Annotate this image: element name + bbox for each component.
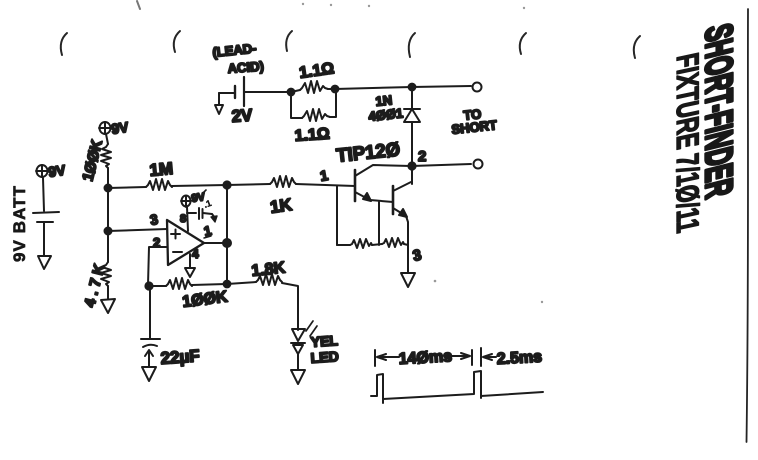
TIP120 internal Q1 emitter <box>355 192 370 200</box>
node (+ input junction) <box>105 228 112 235</box>
svg-text:1: 1 <box>319 167 330 184</box>
wire (1K input from node) <box>227 184 270 185</box>
svg-text:1K: 1K <box>269 195 294 217</box>
svg-text:3: 3 <box>149 211 160 228</box>
svg-text:4.7K: 4.7K <box>81 262 108 309</box>
svg-text:FIXTURE 7/1Ø/11: FIXTURE 7/1Ø/11 <box>670 50 705 236</box>
node (1M / 1K / op-amp vertical) <box>223 181 230 188</box>
wire (pin 2 to feedback node) <box>148 247 167 285</box>
ground (op-amp pin 4, small) <box>185 268 195 277</box>
svg-text:YEL: YEL <box>310 332 339 350</box>
wire (pin 8 stub) <box>187 207 188 231</box>
ground (bypass cap, small arrow) <box>212 214 215 218</box>
resistor R5 1.8K <box>227 282 256 284</box>
svg-text:LED: LED <box>310 348 339 366</box>
node (R1 / 1M junction) <box>105 185 112 192</box>
TIP120 internal Q1 base bar <box>354 170 357 201</box>
TIP120 internal Q2 emitter <box>393 208 406 216</box>
svg-text:TIP12Ø: TIP12Ø <box>335 139 401 167</box>
svg-text:3: 3 <box>411 247 423 265</box>
wire (Q1 emitter to internal resistor) <box>378 202 380 245</box>
terminal (TO SHORT +) <box>473 83 482 92</box>
timing waveform <box>371 374 383 403</box>
node (output) <box>223 239 231 247</box>
ground (LED) <box>291 370 305 384</box>
resistor R7 1.1 ohm (top) <box>291 90 300 92</box>
wire (top rail to diode junction) <box>335 87 412 89</box>
svg-text:14Øms: 14Øms <box>398 348 452 368</box>
TIP120 internal resistor Rb <box>372 244 382 245</box>
battery B1 9V <box>43 178 44 211</box>
paper right edge (decorative) <box>747 9 749 442</box>
svg-text:2: 2 <box>418 148 426 165</box>
LED D2 yellow <box>292 329 305 341</box>
svg-text:ACID): ACID) <box>227 59 264 76</box>
wire (mid rail: node to 1M) <box>108 187 146 188</box>
ground (B2, small arrow) <box>218 93 220 104</box>
svg-text:9V BATT: 9V BATT <box>10 185 29 262</box>
ground (TIP120 emitter) <box>401 273 415 287</box>
node (parallel left) <box>288 89 295 96</box>
ground (4.7K) <box>101 299 115 313</box>
resistor R4 100K (feedback) <box>166 278 192 289</box>
wire (base drop to internal resistors) <box>336 186 338 245</box>
timing dimension 2.5ms <box>480 348 482 366</box>
svg-text:1M: 1M <box>149 159 174 180</box>
timing dimension 140ms <box>374 350 376 366</box>
wire (+ input) <box>108 229 167 231</box>
svg-text:(LEAD-: (LEAD- <box>212 40 257 60</box>
svg-text:9V: 9V <box>110 119 130 137</box>
wire (collector vertical from node 2) <box>411 164 413 184</box>
capacitor C1 22uF <box>149 287 151 338</box>
terminal (TO SHORT -) <box>474 160 483 169</box>
ground (C1) <box>142 367 156 381</box>
node (diode junction) <box>409 84 416 91</box>
svg-text:.1: .1 <box>202 198 212 210</box>
TIP120 internal resistor Ra <box>337 244 350 246</box>
power +9V (op-amp pin 8) <box>181 196 191 208</box>
op-amp U1 <box>167 220 204 265</box>
wire (feedback row left) <box>149 285 166 287</box>
svg-text:8: 8 <box>180 213 186 225</box>
resistor R2 4.7K (vertical) <box>107 231 109 262</box>
wire (emitter down) <box>407 245 409 272</box>
wire (top rail battery to parallel pair) <box>244 91 291 93</box>
wire (top rail to terminal) <box>412 86 471 87</box>
resistor R6 1K <box>270 176 296 187</box>
svg-text:4: 4 <box>192 247 199 261</box>
paper punch-hole tear marks (decorative) <box>61 1 640 58</box>
node (feedback left) <box>145 282 152 289</box>
wire (op-amp output) <box>204 242 227 244</box>
wire (vertical right of op-amp) <box>226 185 228 284</box>
wire (1M to node) <box>172 185 227 186</box>
svg-text:1.1Ω: 1.1Ω <box>294 126 330 145</box>
power +9V (battery column) <box>36 165 48 177</box>
node (parallel right) <box>332 86 339 93</box>
svg-text:9V: 9V <box>47 162 67 180</box>
capacitor C2 0.1 (bypass) <box>187 212 196 214</box>
svg-text:2.5ms: 2.5ms <box>496 349 542 368</box>
wire (left column between nodes) <box>107 188 109 231</box>
resistor R8 1.1 ohm (bottom) <box>291 92 302 118</box>
power +9V (top of R1) <box>99 122 111 134</box>
wire (node 2 to terminal) <box>412 164 471 166</box>
resistor R1 100K (vertical) <box>106 134 108 144</box>
node (feedback right) <box>224 281 231 288</box>
svg-text:2V: 2V <box>231 106 254 126</box>
svg-text:1.1Ω: 1.1Ω <box>298 60 335 82</box>
TIP120 internal Q1 collector <box>355 165 411 176</box>
svg-text:1.8K: 1.8K <box>251 259 287 279</box>
TIP120 internal Q2 base bar <box>392 186 395 214</box>
svg-text:1ØØK: 1ØØK <box>181 289 229 311</box>
TIP120 internal Q2 collector <box>393 182 411 191</box>
svg-text:4ØØ1: 4ØØ1 <box>368 105 404 124</box>
resistor R3 1M <box>146 179 172 190</box>
ground (battery B1) <box>38 256 51 269</box>
wire (pin 4 stub) <box>189 254 191 268</box>
svg-text:22µF: 22µF <box>160 346 200 368</box>
diode D1 1N4001 <box>411 87 413 109</box>
svg-text:SHORT: SHORT <box>451 117 498 137</box>
node (collector node 2) <box>408 162 415 169</box>
